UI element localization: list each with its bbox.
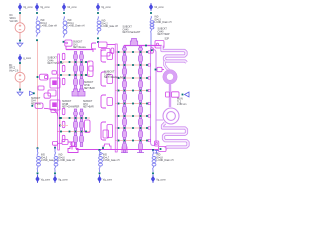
svg-text:ID=L3: ID=L3 <box>155 19 162 21</box>
svg-text:IND: IND <box>41 155 45 157</box>
svg-text:DC: DC <box>9 65 13 67</box>
svg-text:SUBCKT: SUBCKT <box>62 101 72 103</box>
svg-text:Vg_conn: Vg_conn <box>23 6 33 9</box>
svg-text:ID=L6: ID=L6 <box>59 157 66 159</box>
svg-text:NET=BAR: NET=BAR <box>83 106 94 109</box>
svg-text:L=IND_Gate nH: L=IND_Gate nH <box>41 25 58 28</box>
svg-text:IND: IND <box>41 20 45 22</box>
svg-text:IND: IND <box>155 17 159 19</box>
svg-text:ID=L4: ID=L4 <box>41 23 48 25</box>
svg-text:S2P: S2P <box>165 38 170 41</box>
svg-text:CH4: CH4 <box>31 101 36 103</box>
svg-text:IND: IND <box>102 21 106 23</box>
svg-text:SUBCKT: SUBCKT <box>73 42 83 44</box>
svg-text:ID=L7: ID=L7 <box>103 157 110 159</box>
svg-text:SRC1: SRC1 <box>10 18 17 20</box>
svg-text:L=IND_Drain nH: L=IND_Drain nH <box>68 25 85 28</box>
svg-text:L=IND_Drain nH: L=IND_Drain nH <box>157 159 174 162</box>
svg-text:Vdc=28: Vdc=28 <box>10 21 19 23</box>
svg-text:NET=Device_lvl_2: NET=Device_lvl_2 <box>104 75 126 79</box>
svg-text:CH1: CH1 <box>73 44 78 46</box>
svg-text:CH4b: CH4b <box>48 60 55 62</box>
svg-text:IND: IND <box>103 155 107 157</box>
svg-text:SUBCKT: SUBCKT <box>31 98 41 100</box>
svg-text:Vg_conn: Vg_conn <box>101 6 111 9</box>
svg-text:L=80 um: L=80 um <box>177 103 186 106</box>
svg-text:SRC2: SRC2 <box>9 68 16 70</box>
svg-text:IND: IND <box>68 20 72 22</box>
svg-text:Vd_conn: Vd_conn <box>154 6 164 9</box>
svg-text:NET=T1N58NP: NET=T1N58NP <box>48 63 64 65</box>
svg-text:DC: DC <box>10 15 14 17</box>
svg-text:CH4B: CH4B <box>62 104 69 106</box>
svg-text:SUBCKT: SUBCKT <box>123 27 133 29</box>
svg-text:SUBCKT: SUBCKT <box>48 58 58 60</box>
svg-text:ID=L8: ID=L8 <box>157 157 164 159</box>
svg-text:IND: IND <box>157 155 161 157</box>
svg-text:Vd_conn: Vd_conn <box>67 6 77 9</box>
svg-text:CH40: CH40 <box>158 31 165 33</box>
svg-text:L=IND_Drain nH: L=IND_Drain nH <box>155 21 172 24</box>
svg-text:Vg_conn: Vg_conn <box>58 179 68 182</box>
svg-text:ID=L1: ID=L1 <box>68 23 75 25</box>
svg-text:L=IND_Gate nH: L=IND_Gate nH <box>102 25 119 28</box>
svg-text:Vg_conn: Vg_conn <box>156 179 166 182</box>
svg-text:NET=ChamferRT: NET=ChamferRT <box>123 31 141 34</box>
svg-text:Vg_conn: Vg_conn <box>41 179 51 182</box>
svg-text:CH40: CH40 <box>123 29 130 31</box>
svg-text:NET=BAR: NET=BAR <box>84 87 95 90</box>
svg-text:NET=Device: NET=Device <box>73 47 87 49</box>
svg-text:SUBCKT: SUBCKT <box>158 29 168 31</box>
svg-text:IND: IND <box>59 155 63 157</box>
svg-text:SUBCKT: SUBCKT <box>83 101 93 103</box>
svg-text:L=IND_Gate nH: L=IND_Gate nH <box>103 159 120 162</box>
svg-text:CH4: CH4 <box>83 104 88 106</box>
svg-text:Vdc=-2.6: Vdc=-2.6 <box>9 70 19 72</box>
svg-text:Vg_conn: Vg_conn <box>103 179 113 182</box>
svg-text:CH4b: CH4b <box>84 85 91 87</box>
svg-text:L=IND_Gate nH: L=IND_Gate nH <box>59 159 76 162</box>
svg-text:NET=TRAP: NET=TRAP <box>158 33 171 36</box>
svg-text:SUBCKT: SUBCKT <box>84 82 94 84</box>
svg-text:ID=L5: ID=L5 <box>41 157 48 159</box>
svg-text:ID=L2: ID=L2 <box>102 23 109 25</box>
svg-text:Vg_conn: Vg_conn <box>40 6 50 9</box>
svg-text:g_conn: g_conn <box>23 57 32 60</box>
